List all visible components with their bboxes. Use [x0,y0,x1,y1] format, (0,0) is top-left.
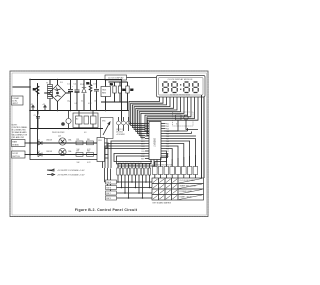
connector CN1 [97,138,109,162]
clock display box [157,76,206,98]
resistor boxes [76,153,83,157]
cap on left drop [36,111,40,129]
lower return wire [30,155,97,160]
legend arrows [47,169,85,177]
svg-text:1N4148: 1N4148 [46,140,52,142]
seven-segment digit 4 [193,82,198,93]
+5V arrows on rail [30,104,46,111]
resistor R2 vertical [87,80,92,111]
component value labels row [67,101,97,106]
lower rail 1 [30,136,97,146]
svg-text:VR1: VR1 [102,121,106,123]
svg-text:RA1 100Ω×10: RA1 100Ω×10 [128,165,139,168]
svg-text:C5: C5 [34,115,36,117]
svg-text:1 2 3 4 5 6 7 8 9 10 11 12: 1 2 3 4 5 6 7 8 9 10 11 12 [170,94,190,96]
bus IC-left to bottom-left nested [103,141,153,168]
keypad matrix box [152,178,204,205]
transistor Q5 [59,148,66,155]
svg-text:BOARD: BOARD [12,143,19,146]
label box DOOR SWITCH [12,151,31,158]
svg-text:100: 100 [94,101,97,103]
crystal box with arrow [101,118,114,139]
svg-text:REG: REG [102,92,107,94]
svg-text:7805: 7805 [102,90,106,92]
svg-text:MAIN: MAIN [12,141,17,144]
wires below IC bottom [118,128,196,169]
label box AC INPUT [12,96,24,105]
seven-segment digit 3 [184,82,189,93]
label box CLOCK DISPLAY [105,75,157,80]
junction dots rails [37,110,106,130]
IC pin labels left [141,123,146,160]
bridge rectifier D1 [44,80,70,111]
right side long wires [202,95,205,179]
label box MAIN BOARD [12,140,31,147]
capacitor C1 electrolytic [67,80,74,111]
bus display-to-IC left group [129,97,184,138]
bottom middle: resistor array row [117,162,151,199]
key row boxes above matrix [152,155,198,178]
svg-text:SW D: SW D [106,198,111,200]
svg-text:CN1 AND CN2: CN1 AND CN2 [12,136,25,139]
small parts right of crystal [107,117,130,149]
svg-text:Figure B-2. Control Panel Circ: Figure B-2. Control Panel Circuit [75,208,138,212]
svg-text:R11 R12 R13 R14 R15 R16 R17: R11 R12 R13 R14 R15 R16 R17 [118,162,142,164]
lower mid rail components row [30,111,103,135]
IC pin labels right [166,123,169,158]
capacitor C2 [74,80,80,111]
transistor Q4 [59,138,66,145]
top bus wire [30,80,122,122]
colon [180,84,181,90]
resistor boxes [76,141,83,145]
bottom rails with small boxes [105,180,153,200]
dashed component box right of IC [164,112,198,131]
seven-segment digit 2 [172,82,177,93]
svg-text:CLOCK DISPLAY MODULE: CLOCK DISPLAY MODULE [168,78,193,81]
node dots [29,79,71,156]
zener diode ZD1 [80,80,86,111]
resistor R1 vertical zigzag [33,84,39,96]
buzzer enclosure [73,113,98,128]
IC U1 body [149,122,161,160]
svg-text:1N4148: 1N4148 [46,151,52,153]
svg-text:0.1: 0.1 [75,103,77,105]
capacitor C3 [93,80,99,111]
bus display-to-IC right group [145,97,198,136]
svg-text:SWITCH: SWITCH [12,156,20,158]
svg-text:CN1: CN1 [98,140,102,142]
border frame outer [10,71,208,217]
svg-text:KEY BOARD MATRIX: KEY BOARD MATRIX [153,202,172,205]
IC U1 right pins [161,124,166,157]
svg-text:PIEZO BUZZER: PIEZO BUZZER [52,132,65,134]
seven-segment digit 1 [163,82,168,93]
bottom-left vertical drops [105,168,111,194]
wires IC right pins to key-row nested [155,139,196,167]
svg-text:INPUT: INPUT [12,103,19,105]
svg-text:X1: X1 [176,124,178,126]
svg-text:NOTE:: NOTE: [12,125,18,127]
left text block [12,125,28,140]
resistors vertical pair near display feed [101,82,134,111]
IC U1 left pins [145,124,149,159]
diode D2 [38,141,42,145]
svg-text:+9V SUPPLY VOLTAGE +9.0V: +9V SUPPLY VOLTAGE +9.0V [57,174,85,177]
diode D3 [38,153,42,157]
right column text with diagonals [180,180,197,199]
border frame inner [12,73,207,215]
rail labels [46,139,91,165]
svg-text:SW A: SW A [106,181,111,184]
horizontal mid rail [30,110,129,112]
svg-text:10μF: 10μF [67,101,71,103]
svg-text:+5V SUPPLY VOLTAGE +5.0V: +5V SUPPLY VOLTAGE +5.0V [57,169,85,172]
svg-text:SW B: SW B [106,188,111,190]
regulator IC2 box [101,80,111,111]
left vertical wires [13,80,38,156]
svg-text:SW C: SW C [106,193,111,195]
lower rail 2 [30,148,97,156]
svg-text:DOOR: DOOR [12,153,18,155]
svg-text:TIMER SET / HOUR: TIMER SET / HOUR [180,186,197,188]
svg-text:LM8560: LM8560 [154,138,157,147]
transformer T1 striped [46,80,53,111]
svg-text:×3 DRIVER: ×3 DRIVER [116,133,126,136]
svg-text:6 8: 6 8 [84,132,86,134]
diagonal switch marks in cells [153,179,177,199]
